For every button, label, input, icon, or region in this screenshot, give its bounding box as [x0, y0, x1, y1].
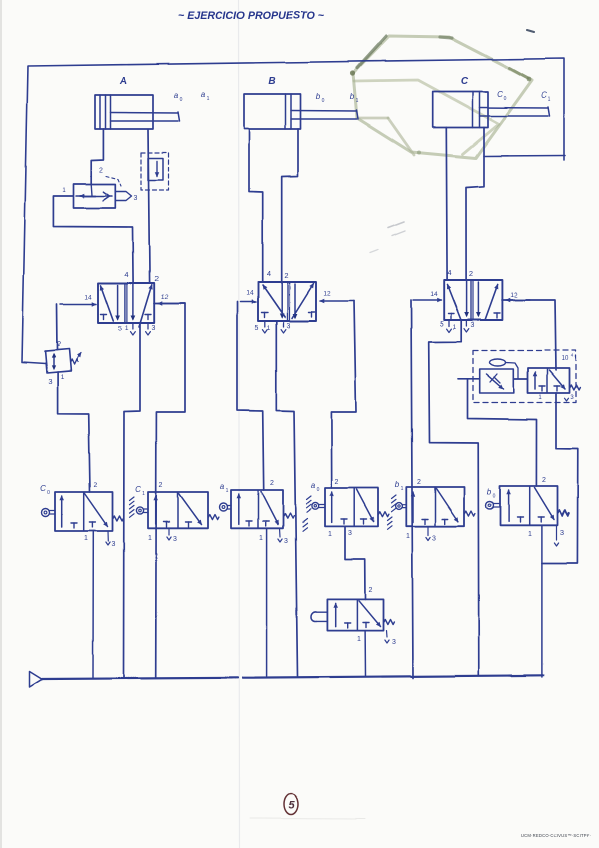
svg-text:3: 3 [287, 323, 291, 330]
svg-text:3: 3 [48, 377, 52, 386]
svg-text:1: 1 [207, 96, 210, 102]
svg-text:0: 0 [493, 493, 496, 499]
svg-text:a: a [201, 90, 206, 99]
svg-text:2: 2 [154, 274, 158, 283]
svg-text:C: C [135, 485, 141, 494]
svg-text:3: 3 [432, 535, 436, 542]
svg-text:B: B [268, 76, 275, 87]
svg-text:b: b [487, 487, 492, 496]
svg-text:2: 2 [335, 479, 339, 486]
svg-text:1: 1 [357, 636, 361, 643]
svg-text:10: 10 [562, 356, 569, 362]
svg-text:0: 0 [322, 98, 325, 104]
svg-text:A: A [118, 76, 126, 87]
svg-text:3: 3 [112, 541, 116, 548]
svg-text:5: 5 [288, 800, 295, 812]
svg-text:5: 5 [440, 321, 444, 328]
svg-text:C: C [497, 90, 503, 99]
svg-text:0: 0 [504, 96, 507, 102]
svg-text:1: 1 [148, 535, 152, 542]
svg-text:1: 1 [84, 535, 88, 542]
svg-text:a: a [311, 481, 316, 490]
svg-text:2: 2 [99, 167, 103, 174]
svg-text:14: 14 [246, 290, 254, 297]
svg-text:~ EJERCICIO PROPUESTO ~: ~ EJERCICIO PROPUESTO ~ [178, 10, 325, 22]
svg-text:2: 2 [57, 341, 61, 348]
svg-text:1: 1 [328, 531, 332, 538]
svg-text:5: 5 [255, 325, 259, 332]
svg-text:1: 1 [60, 374, 64, 381]
svg-text:4: 4 [267, 269, 271, 278]
svg-text:C: C [40, 484, 46, 493]
svg-text:14: 14 [84, 294, 92, 301]
svg-text:1: 1 [226, 488, 229, 494]
svg-text:UCM·REDCO·CCIVUS™·SCITPF·: UCM·REDCO·CCIVUS™·SCITPF· [521, 833, 591, 838]
svg-text:2: 2 [93, 482, 97, 489]
svg-text:12: 12 [323, 291, 331, 298]
svg-text:2: 2 [417, 479, 421, 486]
svg-text:3: 3 [470, 322, 474, 329]
svg-text:1: 1 [267, 325, 271, 332]
svg-text:2: 2 [469, 269, 473, 278]
svg-text:3: 3 [560, 528, 564, 537]
svg-text:b: b [350, 92, 355, 101]
svg-text:0: 0 [47, 490, 50, 496]
svg-text:1: 1 [401, 486, 404, 492]
svg-text:14: 14 [430, 291, 438, 298]
svg-text:2: 2 [270, 480, 274, 487]
svg-text:2: 2 [369, 587, 373, 594]
svg-text:b: b [316, 92, 321, 101]
svg-text:C: C [460, 76, 468, 87]
svg-text:0: 0 [180, 97, 183, 103]
svg-text:C: C [541, 91, 547, 100]
svg-text:2: 2 [542, 477, 546, 484]
svg-text:3: 3 [173, 536, 177, 543]
svg-text:1: 1 [356, 98, 359, 104]
svg-text:a: a [220, 482, 225, 491]
svg-text:1: 1 [125, 325, 129, 332]
svg-text:12: 12 [510, 292, 518, 299]
svg-text:1: 1 [528, 531, 532, 538]
svg-text:0: 0 [317, 487, 320, 493]
svg-text:1: 1 [548, 97, 551, 103]
svg-text:12: 12 [161, 294, 169, 301]
svg-text:4: 4 [447, 268, 451, 277]
svg-text:3: 3 [152, 325, 156, 332]
svg-text:3: 3 [134, 195, 138, 202]
svg-text:2: 2 [159, 482, 163, 489]
svg-text:b: b [395, 480, 400, 489]
svg-text:4: 4 [124, 270, 128, 279]
svg-text:5: 5 [118, 326, 122, 333]
svg-text:3: 3 [392, 639, 396, 646]
svg-text:1: 1 [142, 491, 145, 497]
svg-text:2: 2 [284, 271, 288, 280]
svg-text:3: 3 [348, 530, 352, 537]
svg-text:1: 1 [406, 533, 410, 540]
svg-text:3: 3 [284, 538, 288, 545]
svg-text:a: a [174, 91, 179, 100]
svg-text:1: 1 [453, 324, 457, 331]
svg-text:1: 1 [259, 535, 263, 542]
